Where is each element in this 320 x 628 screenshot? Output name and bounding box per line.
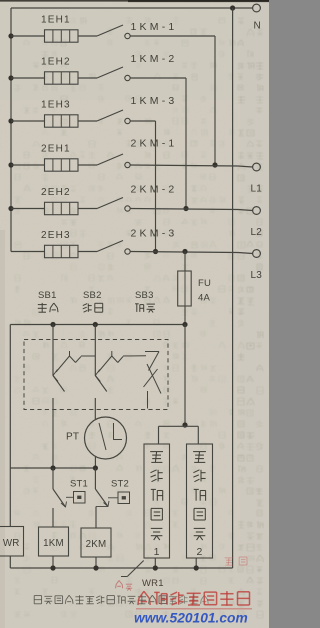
svg-text:WR: WR [3, 538, 20, 549]
terminal L2 [251, 207, 263, 238]
svg-text:2KM-3: 2KM-3 [131, 228, 178, 240]
wire: 1KM-1 to L1 [130, 36, 217, 168]
pushbutton SB2 [95, 325, 146, 420]
contact 1KM-2 [97, 53, 177, 81]
terminal N [253, 4, 261, 31]
wire: 1KM-3 to L3 [130, 121, 158, 254]
svg-text:2KM-1: 2KM-1 [131, 138, 178, 150]
wire: left control vertical [9, 325, 11, 527]
temperature indicator 1 [144, 444, 170, 568]
svg-text:1EH2: 1EH2 [41, 57, 71, 68]
wire: row 2KM-2 to terminal L2 [130, 209, 252, 211]
svg-text:2KM: 2KM [86, 539, 107, 550]
wire: top line to N [11, 7, 253, 9]
wire: row 2KM-3 to terminal L3 [130, 252, 252, 254]
svg-text:1KM-2: 1KM-2 [131, 53, 178, 65]
heater 1EH3 [8, 100, 97, 128]
label SB2 定时 [83, 290, 103, 312]
contact 1KM-3 [97, 95, 177, 124]
svg-text:SB1: SB1 [38, 290, 57, 301]
heater 2EH3 [11, 230, 97, 258]
svg-text:4A: 4A [198, 293, 210, 304]
pushbutton SB3 (stop, mechanical) [144, 352, 162, 409]
svg-text:2EH1: 2EH1 [41, 144, 71, 155]
svg-text:1EH1: 1EH1 [41, 15, 71, 26]
label SB1 自动 [38, 290, 58, 313]
node: fuse tap on L3 [182, 249, 187, 254]
heater 2EH2 [8, 187, 97, 215]
temperature indicator 2 [187, 444, 213, 568]
heater 2EH1 [8, 144, 97, 172]
heater 1EH2 [8, 57, 97, 85]
svg-text:PT: PT [66, 432, 79, 443]
contact 2KM-2 [97, 184, 177, 212]
wire: N rail (right vertical) [232, 8, 234, 568]
bleed-through print texture [14, 17, 263, 618]
node: junction on N line [230, 5, 235, 10]
wire: row 2KM-1 to terminal L1 [130, 165, 252, 167]
wire: bottom rail [10, 565, 232, 570]
svg-text:2KM-2: 2KM-2 [131, 184, 178, 196]
wire: 1KM-2 to L2 [130, 78, 188, 211]
red marks near WR1 [116, 581, 133, 591]
contactor coil 2KM [81, 528, 111, 568]
wire: control rail upper [10, 322, 187, 327]
red watermark 家电维修资料网 [136, 557, 252, 609]
pushbutton SB1 [53, 325, 96, 469]
svg-text:2EH2: 2EH2 [41, 187, 71, 198]
svg-text:WR1: WR1 [142, 578, 164, 589]
svg-text:SB3: SB3 [135, 290, 154, 301]
fuse FU 4A [178, 252, 211, 325]
note text 注:图为单层原理... [34, 595, 208, 604]
terminal L3 [251, 250, 263, 281]
page top edge border [0, 0, 269, 2]
svg-text:ST2: ST2 [111, 479, 129, 490]
svg-text:1: 1 [154, 546, 160, 558]
timer motor PT [66, 417, 127, 468]
contactor coil 1KM [39, 527, 69, 568]
svg-text:SB2: SB2 [83, 290, 102, 301]
svg-text:ST1: ST1 [70, 479, 88, 490]
contact 2KM-1 [97, 138, 177, 168]
svg-text:1EH3: 1EH3 [41, 100, 71, 111]
svg-text:L3: L3 [251, 270, 263, 281]
svg-text:2: 2 [196, 546, 202, 558]
contact 2KM-3 [97, 228, 177, 255]
wire: left bus [10, 8, 12, 252]
contact 1KM-1 [97, 21, 177, 39]
rheostat wiper WR1 [121, 561, 164, 590]
svg-text:1KM-1: 1KM-1 [131, 21, 178, 33]
wire: indicator feed tee [159, 325, 199, 445]
wire: control rail lower [10, 465, 98, 470]
thermostat ST1 [53, 468, 88, 527]
label SB3 停止 [135, 290, 155, 313]
resistor WR [0, 527, 24, 569]
svg-text:1KM-3: 1KM-3 [131, 95, 178, 107]
svg-text:N: N [254, 21, 261, 32]
svg-text:L1: L1 [251, 184, 263, 195]
svg-text:1KM: 1KM [43, 538, 64, 549]
terminal L1 [251, 163, 263, 194]
mechanical interlock dashed box [24, 340, 168, 410]
svg-text:2EH3: 2EH3 [41, 230, 71, 241]
svg-text:FU: FU [198, 278, 211, 289]
thermostat ST2 [95, 468, 129, 528]
heater 1EH1 [8, 15, 97, 43]
svg-text:L2: L2 [251, 227, 263, 238]
svg-text:www.520101.com: www.520101.com [134, 611, 248, 626]
watermark www.520101.com [134, 611, 248, 626]
